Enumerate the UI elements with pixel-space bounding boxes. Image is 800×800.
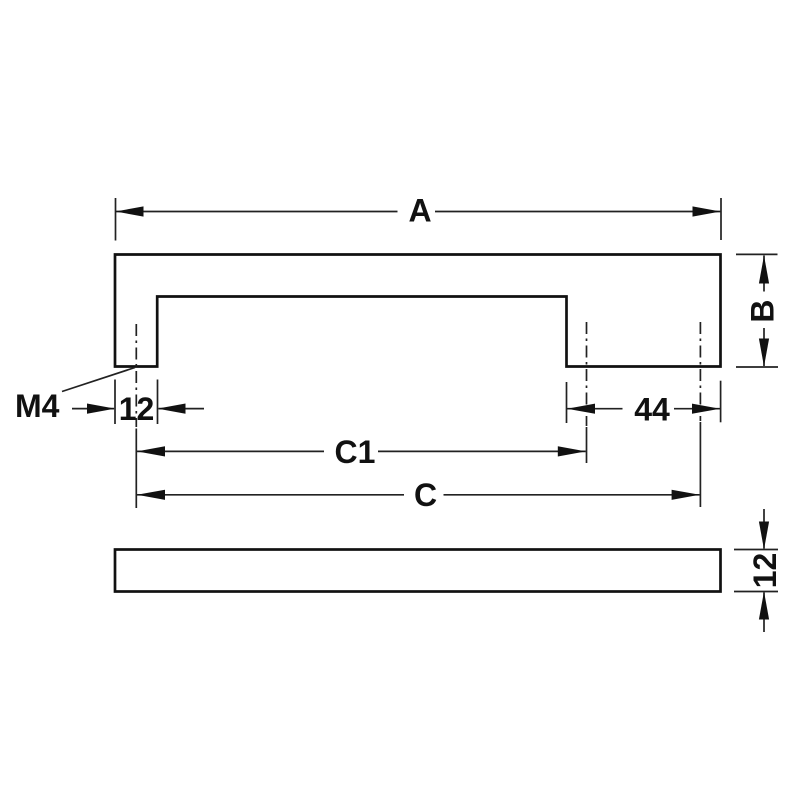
svg-text:C: C [414, 477, 437, 513]
dimension C arrow right [672, 490, 700, 500]
svg-text:B: B [745, 299, 781, 322]
svg-text:A: A [408, 193, 431, 229]
dimension C1 arrow left [137, 446, 165, 456]
bottom bar side-view outline [115, 550, 721, 592]
dimension 12 (bar height) extension line top [734, 549, 778, 551]
svg-text:12: 12 [119, 391, 155, 427]
dimension C1 line [137, 450, 586, 452]
dimension C arrow left [137, 490, 165, 500]
centerline left hole (dash-dot) [135, 324, 137, 427]
dimension A line [116, 211, 721, 213]
M4 leader line [62, 368, 135, 392]
dimension B line [763, 256, 765, 367]
dimension 44 arrow left [567, 404, 595, 414]
dimension 12 (bar height) tail line bottom [763, 593, 765, 633]
dimension 12 (bar height) arrow pointing down [759, 522, 769, 550]
svg-text:M4: M4 [15, 388, 60, 424]
centerline right C solid extension [699, 422, 701, 507]
svg-text:C1: C1 [335, 434, 376, 470]
dimension B arrow down [759, 339, 769, 367]
dimension 44 arrow right [692, 404, 720, 414]
centerline left hole solid extension for C and C1 [135, 429, 137, 509]
dimension A arrow right [693, 206, 721, 216]
dimension 12 (bar height) tail line top [763, 509, 765, 549]
dimension 12 (bar height) extension line bottom [734, 591, 778, 593]
centerline right C (dash-dot) [699, 322, 701, 421]
dimension 44 extension line left [566, 382, 568, 423]
dimension 12 (left foot) arrow pointing right [87, 404, 115, 414]
svg-text:12: 12 [747, 553, 783, 589]
dimension 44 line [567, 408, 720, 410]
dimension 12 (left foot) extension line right [157, 380, 159, 425]
dimension 12 (left foot) arrow pointing left [158, 404, 186, 414]
dimension C1 arrow right [558, 446, 586, 456]
dimension 12 (left foot) tail line left [72, 408, 114, 410]
dimension A extension line left [115, 198, 117, 241]
handle front-view outline [115, 255, 721, 367]
dimension C line [137, 494, 700, 496]
dimension A extension line right [720, 198, 722, 240]
dimension B extension line top [736, 253, 778, 255]
dimension B extension line bottom [736, 366, 778, 368]
centerline right hole C1 solid extension [586, 427, 588, 463]
svg-text:44: 44 [634, 392, 670, 428]
dimension 12 (left foot) tail line right [159, 408, 205, 410]
dimension 12 (bar height) arrow pointing up [759, 592, 769, 620]
centerline right hole C1 (dash-dot) [586, 322, 588, 426]
dimension B arrow up [759, 256, 769, 284]
dimension A arrow left [116, 206, 144, 216]
dimension 12 (left foot) extension line left [114, 380, 116, 425]
dimension 44 extension line right [720, 381, 722, 423]
